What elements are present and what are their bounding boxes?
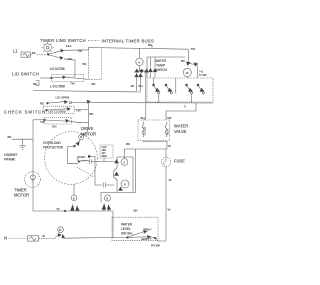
svg-text:WATER: WATER bbox=[155, 59, 167, 63]
wire row C long line bbox=[71, 100, 213, 103]
svg-text:START: START bbox=[77, 155, 86, 159]
svg-text:TW: TW bbox=[70, 82, 75, 86]
svg-text:TIMER LINE SWITCH: TIMER LINE SWITCH bbox=[40, 38, 86, 43]
label LID SWITCH bbox=[12, 72, 39, 77]
wire down to water level switch bbox=[113, 209, 138, 238]
node EMPTY bbox=[142, 237, 152, 241]
svg-text:LID SWITCH: LID SWITCH bbox=[12, 72, 39, 77]
water valve return wire bbox=[143, 141, 167, 150]
wire BK from L1 bbox=[31, 51, 48, 55]
capacitor info box bbox=[100, 145, 113, 158]
main winding bbox=[78, 160, 89, 162]
water level switch contacts bbox=[127, 229, 157, 239]
svg-text:12: 12 bbox=[185, 71, 189, 75]
label INTERNAL TIMER BUSS bbox=[88, 39, 154, 49]
lid switch contact row B wire bbox=[33, 84, 141, 92]
motor (dashed circle) bbox=[45, 132, 98, 185]
svg-text:COLD: COLD bbox=[143, 126, 147, 135]
svg-text:CABINET: CABINET bbox=[4, 153, 18, 157]
wire TW to internal buss bbox=[64, 43, 196, 53]
svg-text:TW: TW bbox=[78, 49, 83, 53]
svg-text:BU: BU bbox=[139, 84, 143, 88]
svg-text:77-4M: 77-4M bbox=[199, 73, 208, 77]
temp selector contact 3 bbox=[186, 84, 193, 94]
svg-text:PR 30H: PR 30H bbox=[151, 244, 160, 248]
wire W dotted bbox=[39, 234, 55, 239]
wire TM down (BK) bbox=[64, 59, 87, 77]
svg-text:L-0 0.760K: L-0 0.760K bbox=[50, 84, 66, 88]
svg-text:GN: GN bbox=[52, 124, 56, 128]
lid switch contact row C (LID OPEN) bbox=[40, 101, 71, 106]
wire cap box to main wire bbox=[103, 158, 105, 162]
node BU near valve bbox=[141, 116, 145, 120]
timer line switch contacts bbox=[47, 44, 72, 61]
label CABINET FRAME bbox=[4, 153, 18, 161]
wire left pole down bbox=[32, 120, 34, 211]
label WATER LEVEL SW 30-L bbox=[121, 223, 133, 236]
svg-text:LID OPEN: LID OPEN bbox=[56, 96, 70, 100]
svg-text:N: N bbox=[4, 235, 7, 240]
lid switch contact row A bbox=[33, 74, 96, 86]
temp selector contact 4 bbox=[197, 84, 204, 94]
wire strip bottom to terminal 8 bbox=[101, 193, 117, 203]
svg-text:W: W bbox=[42, 234, 45, 238]
label WATER VALVE bbox=[174, 124, 188, 135]
wire terminal 2 to fuse node bbox=[124, 142, 166, 159]
wire node to strip bottom bbox=[133, 149, 136, 193]
svg-text:FILL: FILL bbox=[66, 44, 72, 48]
svg-text:TEMP: TEMP bbox=[156, 64, 166, 68]
wire OR to hot valve bbox=[166, 103, 196, 120]
node W upper bbox=[168, 144, 171, 148]
svg-text:MOTOR: MOTOR bbox=[14, 192, 29, 197]
label TIMER MOTOR bbox=[14, 188, 29, 198]
water temp switch label box bbox=[147, 57, 185, 78]
bus line y211 bbox=[33, 207, 113, 212]
fuse bbox=[161, 149, 170, 241]
svg-text:LID CLOSED: LID CLOSED bbox=[49, 109, 67, 113]
svg-text:BU: BU bbox=[141, 116, 145, 120]
check switch contact bbox=[33, 117, 89, 128]
terminal 11 contact bbox=[55, 227, 65, 239]
svg-text:LEVEL: LEVEL bbox=[121, 227, 131, 231]
svg-text:PROTECTOR: PROTECTOR bbox=[43, 146, 64, 150]
wire fuse line corner to empty bbox=[151, 208, 171, 248]
node N entry bbox=[4, 235, 7, 240]
junction bar under 4 bbox=[135, 66, 149, 73]
motor top terminal bbox=[79, 135, 84, 140]
label LID OPEN bbox=[56, 96, 70, 100]
svg-text:L1: L1 bbox=[13, 49, 18, 54]
label FUSE bbox=[174, 159, 185, 164]
svg-text:TM: TM bbox=[68, 57, 73, 61]
label CHECK SWITCH bbox=[4, 110, 46, 115]
node W lower bbox=[169, 178, 172, 182]
svg-text:TW: TW bbox=[191, 47, 196, 51]
start winding bbox=[77, 155, 90, 161]
terminal 8 contact to line bbox=[102, 195, 111, 211]
water valve box bbox=[138, 120, 170, 141]
wire BU from 4 bar to cold valve bbox=[139, 72, 146, 121]
svg-text:CHECK SWITCH: CHECK SWITCH bbox=[4, 110, 46, 115]
node V on bottom line bbox=[184, 105, 187, 109]
buss drop BK to 12 bbox=[181, 49, 207, 78]
svg-text:W: W bbox=[168, 208, 171, 212]
svg-text:WATER: WATER bbox=[174, 124, 188, 129]
svg-text:V-0 0.570K: V-0 0.570K bbox=[50, 67, 66, 71]
label TIMER LINE SWITCH bbox=[40, 38, 86, 43]
svg-text:FUSE: FUSE bbox=[174, 159, 185, 164]
wire to cabinet ground bbox=[8, 135, 33, 139]
label OVERLOAD PROTECTOR bbox=[43, 141, 64, 150]
centrifugal switch linkage bbox=[77, 167, 94, 177]
svg-text:W: W bbox=[169, 178, 172, 182]
timer line switch cam symbol bbox=[42, 42, 54, 54]
water temp switch feed 4 bbox=[136, 48, 143, 65]
bus line y237 bbox=[65, 237, 128, 240]
terminal 9 contact to line bbox=[71, 195, 80, 211]
svg-text:11: 11 bbox=[59, 228, 62, 232]
svg-text:DRIVE: DRIVE bbox=[81, 126, 94, 131]
water temp switch selector box bbox=[147, 78, 213, 102]
connector (line filter) at L1 bbox=[21, 52, 31, 57]
svg-text:INTERNAL TIMER BUSS: INTERNAL TIMER BUSS bbox=[102, 39, 155, 44]
timer motor bbox=[25, 172, 41, 188]
temp selector contact 2 bbox=[165, 84, 172, 94]
terminal 2 bbox=[121, 159, 128, 166]
terminal 9 bbox=[121, 180, 129, 188]
svg-text:VALVE: VALVE bbox=[174, 129, 187, 134]
water level switch box bbox=[112, 217, 158, 241]
ground (cabinet frame) bbox=[19, 139, 25, 149]
svg-text:TW: TW bbox=[40, 120, 45, 124]
motor terminal strip bbox=[114, 157, 134, 193]
svg-text:OVERLOAD: OVERLOAD bbox=[43, 141, 61, 145]
connector at N bbox=[9, 236, 39, 241]
temp selector contact 1 bbox=[153, 78, 160, 94]
node FILL bbox=[144, 227, 150, 231]
svg-text:EMPTY: EMPTY bbox=[142, 237, 152, 241]
selector mid wire bbox=[175, 78, 177, 94]
svg-text:TW: TW bbox=[76, 108, 81, 112]
svg-text:MFD: MFD bbox=[102, 155, 108, 158]
svg-text:28: 28 bbox=[131, 84, 135, 88]
svg-text:SW 30-L: SW 30-L bbox=[121, 232, 133, 236]
svg-text:FRAME: FRAME bbox=[4, 158, 16, 162]
lid switch contact row D (LID CLOSED) bbox=[43, 106, 81, 113]
label DRIVE MOTOR bbox=[81, 126, 96, 137]
selector outlet wires bbox=[159, 94, 192, 103]
wire main winding to terminal 2 bbox=[89, 159, 114, 163]
svg-text:W: W bbox=[168, 144, 171, 148]
label V-0.57K bbox=[50, 67, 66, 71]
wire hop under buss bbox=[89, 48, 102, 79]
twin contact stubs to row B line bbox=[131, 74, 143, 92]
motor bottom exit wire bbox=[73, 185, 75, 196]
node L1 bbox=[13, 49, 18, 54]
svg-text:W: W bbox=[57, 207, 60, 211]
svg-text:WATER: WATER bbox=[121, 223, 133, 227]
overload protector contact bbox=[68, 140, 81, 164]
wire row D to motor top bbox=[75, 103, 95, 136]
capacitor C bbox=[103, 183, 114, 188]
wire start winding to capacitor bbox=[90, 156, 101, 185]
